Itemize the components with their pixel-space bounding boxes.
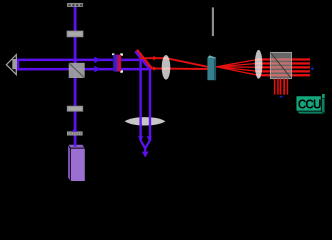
lens L2: objective lens (horizontal) xyxy=(125,117,166,125)
ray: red camera ray 4 xyxy=(283,79,285,95)
wire: beam fold connector at prism xyxy=(17,59,19,71)
filter F3: striped diffuser plate xyxy=(67,131,83,135)
wire: scan beam vertical left ray (mirror to objective) xyxy=(139,53,141,141)
arrow: red ray direction upper xyxy=(153,56,157,61)
mirror M1: reference retroreflector prism (left) xyxy=(6,55,16,75)
modulator AOM1: frequency shifter with blue-red gradient xyxy=(112,53,123,72)
arrow: camera beam direction mark (blue dash) xyxy=(280,96,283,97)
sample S: teal specimen plate xyxy=(207,55,216,80)
ray: red parallel ray 3 xyxy=(258,66,311,68)
beamsplitter BS1: main cube xyxy=(69,63,85,78)
wire: horizontal beam lower ray (reference arm) xyxy=(17,68,151,71)
arrow: focused beam tip xyxy=(142,152,149,158)
ray: red parallel ray 4 xyxy=(258,70,311,72)
mirror M3: dichroic fold mirror (red/purple diagonal) xyxy=(135,50,152,71)
wire: horizontal beam upper ray (reference arm) xyxy=(17,59,141,62)
mirror M2: striped piezo reference mirror (top) xyxy=(67,3,83,6)
ray: red parallel ray 2 xyxy=(258,62,311,64)
ray: red camera ray 2 xyxy=(277,79,279,95)
wire: beam tip entering source box xyxy=(74,144,77,147)
arrow: output beam direction mark (blue dot) xyxy=(311,68,313,70)
lens L1: tube lens xyxy=(162,55,171,80)
svg-text:CCU: CCU xyxy=(298,97,321,112)
beamsplitter BS2: output cube to camera xyxy=(270,52,291,78)
ray: red camera ray 5 xyxy=(287,79,289,95)
camera CCU: control unit box xyxy=(296,94,325,114)
arrow: beam direction upper ray xyxy=(94,57,101,64)
lens L3: collimating lens xyxy=(255,50,263,79)
wire: vertical illumination beam (source to top mirror) xyxy=(74,7,77,148)
ray: red fan ray 4 xyxy=(216,67,257,72)
ray: red fan ray 1 (sample to collimating lens) xyxy=(216,59,257,66)
source LS: purple light source box xyxy=(68,144,86,181)
ray: red parallel ray 1 (to output) xyxy=(258,58,311,60)
ray: red fan ray 3 xyxy=(216,66,257,69)
ray: red camera ray 3 xyxy=(280,79,282,95)
ray: converging focus right segment xyxy=(144,140,151,148)
arrow: source beam direction (up) xyxy=(72,127,77,132)
ray: red detection upper ray (mirror to sample) xyxy=(140,58,208,67)
ray: red fan ray 5 xyxy=(216,67,257,75)
arrow: red ray direction lower xyxy=(153,66,157,71)
holder: sample holder rod xyxy=(212,7,214,36)
arrow: focus direction right xyxy=(147,136,152,142)
filter F1: plate above beamsplitter xyxy=(67,31,83,37)
wire: scan beam vertical right ray (mirror to objective) xyxy=(149,69,151,140)
ray: red camera ray 1 (down to CCU) xyxy=(274,79,276,95)
arrow: focus direction left xyxy=(138,136,143,142)
ray: red detection lower ray (mirror to sample) xyxy=(151,67,208,70)
arrow: beam direction lower ray xyxy=(94,66,101,73)
ray: converging focus left segment xyxy=(139,140,146,148)
wire: focused beam below focus xyxy=(144,147,146,153)
filter F2: plate below beamsplitter xyxy=(67,106,83,111)
ray: red parallel ray 5 xyxy=(258,74,311,76)
ray: red fan ray 2 xyxy=(216,63,257,66)
